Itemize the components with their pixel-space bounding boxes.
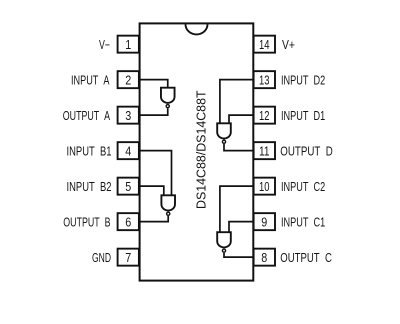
IC body U1 DS14C88/DS14C88T <box>140 23 254 280</box>
svg-text:5: 5 <box>125 180 131 194</box>
wire gate B output to pin 6 <box>140 216 168 222</box>
pin 5 box <box>118 178 139 195</box>
svg-text:INPUT D2: INPUT D2 <box>281 73 325 87</box>
wire pin 13 to gate D input <box>220 80 253 124</box>
svg-text:1: 1 <box>125 38 131 52</box>
wire pin 5 to gate B input <box>140 186 164 195</box>
gate C output bubble <box>222 249 225 252</box>
svg-text:INPUT A: INPUT A <box>71 73 110 87</box>
svg-text:8: 8 <box>261 251 267 265</box>
gate D output bubble <box>222 140 225 143</box>
gate A body (inverter, pins 2-3) <box>161 88 175 103</box>
pin 11 box <box>254 142 275 159</box>
gate B output bubble <box>167 212 170 215</box>
svg-text:OUTPUT B: OUTPUT B <box>63 215 110 229</box>
wire pin 10 to gate C input <box>220 186 253 232</box>
svg-text:3: 3 <box>125 109 131 123</box>
pin 13 box <box>254 71 275 88</box>
pin 9 box <box>254 213 275 230</box>
gate A output bubble <box>166 105 169 108</box>
wire gate D output to pin 11 <box>224 144 253 151</box>
gate C body (NAND, pins 9,10-8) <box>217 232 231 247</box>
svg-text:DS14C88/DS14C88T: DS14C88/DS14C88T <box>194 90 208 209</box>
svg-text:V+: V+ <box>282 38 295 52</box>
svg-text:2: 2 <box>125 74 131 88</box>
wire gate C output to pin 8 <box>224 253 253 257</box>
svg-text:6: 6 <box>125 216 131 230</box>
svg-text:INPUT C2: INPUT C2 <box>281 180 325 194</box>
pin 14 box <box>254 36 275 53</box>
svg-text:7: 7 <box>125 251 131 265</box>
pin 10 box <box>254 178 275 195</box>
gate B body (NAND, pins 4,5-6) <box>161 195 175 210</box>
svg-text:INPUT D1: INPUT D1 <box>281 109 325 123</box>
pin 12 box <box>254 107 275 124</box>
svg-text:INPUT B2: INPUT B2 <box>67 180 112 194</box>
svg-text:OUTPUT C: OUTPUT C <box>280 251 332 265</box>
pin 7 box <box>118 249 139 266</box>
wire pin 4 to gate B input <box>140 151 172 196</box>
svg-text:GND: GND <box>92 251 111 265</box>
svg-text:14: 14 <box>259 38 270 52</box>
svg-text:OUTPUT D: OUTPUT D <box>280 144 333 158</box>
svg-text:12: 12 <box>259 109 270 123</box>
svg-text:11: 11 <box>259 145 270 159</box>
svg-text:4: 4 <box>125 145 131 159</box>
svg-text:9: 9 <box>261 216 267 230</box>
pin 1 box <box>118 36 139 53</box>
wire pin 9 to gate C input <box>229 222 253 233</box>
pin 2 box <box>118 71 139 88</box>
gate D body (NAND, pins 12,13-11) <box>217 123 231 138</box>
wire gate A output to pin 3 <box>140 108 168 115</box>
pin 3 box <box>118 107 139 124</box>
pin 6 box <box>118 213 139 230</box>
svg-text:INPUT C1: INPUT C1 <box>281 215 325 229</box>
pin 8 box <box>254 249 275 266</box>
pin-1 index notch <box>186 24 208 34</box>
svg-text:10: 10 <box>259 180 270 194</box>
wire pin 12 to gate D input <box>229 115 253 123</box>
wire pin 2 to gate A input <box>140 80 168 88</box>
svg-text:OUTPUT A: OUTPUT A <box>63 109 111 123</box>
svg-text:13: 13 <box>259 74 270 88</box>
svg-text:V−: V− <box>99 38 110 52</box>
pin 4 box <box>118 142 139 159</box>
svg-text:INPUT B1: INPUT B1 <box>67 144 112 158</box>
